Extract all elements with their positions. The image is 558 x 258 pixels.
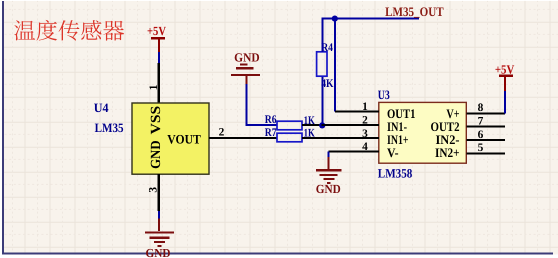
wire R6 to junction: [302, 124, 322, 126]
svg-text:1: 1: [362, 101, 368, 113]
svg-text:5: 5: [478, 142, 484, 154]
pin 2 of U3 (IN1-): [322, 114, 379, 126]
pin 1 of U4 (VSS): [148, 63, 160, 103]
title 温度传感器: [14, 20, 124, 41]
svg-text:1: 1: [148, 84, 160, 90]
svg-text:GND: GND: [146, 246, 171, 258]
wire junction down to U3 pin 1: [334, 19, 336, 112]
pin 3 of U3 (IN1+), fed through resistor R7: [302, 128, 379, 140]
ground GND (above R6, inverted): [231, 50, 260, 84]
svg-text:R6: R6: [265, 113, 277, 126]
svg-text:3: 3: [362, 128, 368, 140]
power +5V (U4 supply): [147, 24, 166, 52]
wire GND down to R6 row: [246, 84, 277, 125]
svg-text:V-: V-: [387, 145, 399, 160]
wire +5V to U3 pin 8: [504, 91, 506, 113]
resistor R7: [277, 133, 302, 142]
junction on LM35_OUT wire: [332, 16, 338, 22]
svg-text:VSS: VSS: [149, 106, 164, 135]
svg-text:8: 8: [478, 102, 484, 114]
svg-text:2: 2: [362, 114, 368, 126]
resistor R6: [277, 121, 302, 130]
svg-text:IN2+: IN2+: [435, 145, 460, 160]
IC U4 LM35 body: [132, 103, 209, 174]
svg-text:GND: GND: [234, 50, 260, 64]
svg-text:6: 6: [478, 129, 484, 141]
pin 7 of U3 (OUT2): [466, 115, 505, 127]
svg-text:GND: GND: [316, 182, 341, 196]
pin 3 of U4 (GND): [148, 174, 160, 211]
wire U4 pin 3 to GND: [158, 211, 160, 219]
svg-text:3: 3: [148, 187, 160, 193]
svg-text:LM358: LM358: [378, 167, 413, 181]
pin 6 of U3 (IN2-): [466, 129, 505, 141]
svg-text:+5V: +5V: [495, 63, 515, 77]
svg-text:4: 4: [362, 141, 368, 153]
junction node at U3 pin 2: [319, 122, 325, 128]
IC U3 LM358 body: [379, 102, 467, 163]
ground GND (below U3 pin 4): [316, 157, 342, 196]
svg-text:2: 2: [219, 126, 225, 138]
svg-text:U4: U4: [94, 101, 109, 115]
pin 8 of U3 (V+): [466, 102, 505, 114]
wire R4 top to LM35_OUT net: [323, 19, 420, 52]
svg-text:LM35_OUT: LM35_OUT: [385, 4, 444, 19]
wire +5V to U4 pin 1: [158, 52, 160, 63]
svg-text:U3: U3: [378, 88, 390, 102]
svg-text:R7: R7: [265, 126, 277, 139]
resistor R4: [317, 52, 327, 76]
svg-text:GND: GND: [149, 140, 164, 169]
ground GND (below U4): [145, 219, 174, 258]
svg-text:VOUT: VOUT: [167, 131, 201, 146]
wire R4 bottom to junction at U3 pin 2: [322, 77, 324, 125]
pin 1 of U3 (OUT1): [335, 101, 379, 113]
pin 2 of U4 (VOUT): [209, 126, 277, 138]
wire U3 pin 4 to GND: [328, 151, 330, 157]
power +5V (U3 supply): [495, 63, 515, 92]
svg-text:+5V: +5V: [147, 24, 166, 38]
pin 4 of U3 (V-): [329, 141, 379, 153]
svg-text:LM35: LM35: [95, 121, 124, 135]
pin 5 of U3 (IN2+): [466, 142, 505, 154]
svg-text:7: 7: [478, 115, 484, 127]
